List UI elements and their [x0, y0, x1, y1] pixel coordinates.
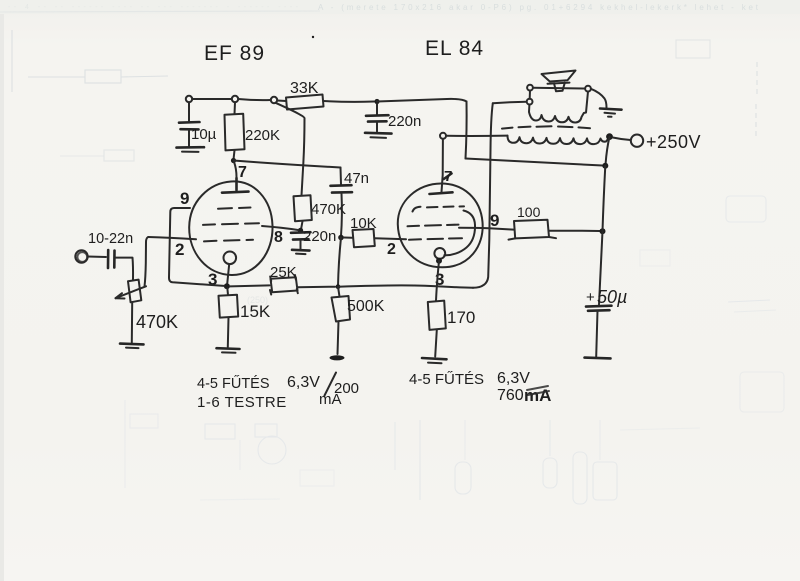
capacitor 10u — [188, 102, 190, 121]
node B (220K top, open circle) — [232, 96, 238, 102]
svg-text:25K: 25K — [270, 264, 297, 281]
wire jack to cap — [88, 256, 106, 259]
svg-text:50µ: 50µ — [597, 287, 627, 307]
svg-text:500K: 500K — [347, 298, 385, 315]
wire speaker bus — [533, 87, 585, 90]
svg-text:7: 7 — [444, 168, 452, 185]
node anode circle — [440, 133, 446, 139]
wire top rail A-B — [192, 98, 232, 100]
svg-text:4-5 FŰTÉS: 4-5 FŰTÉS — [409, 371, 484, 388]
svg-text:760: 760 — [497, 387, 524, 404]
svg-text:470K: 470K — [311, 201, 346, 218]
resistor 470K screen — [294, 195, 312, 221]
resistor 170 — [428, 301, 446, 330]
wire anode to primary — [446, 135, 508, 137]
wire NFB top to secondary — [493, 102, 527, 103]
resistor 33K — [286, 95, 324, 110]
tube EL84 envelope — [398, 184, 483, 268]
svg-text:100: 100 — [517, 204, 541, 220]
wire EL84 anode up — [442, 139, 443, 192]
ground (speaker) — [600, 109, 622, 110]
terminal +250V circle — [631, 135, 643, 147]
svg-text:4-5 FŰTÉS: 4-5 FŰTÉS — [197, 375, 270, 392]
wire cap to pot top — [116, 258, 134, 280]
node NFB junction — [336, 284, 341, 289]
capacitor 220n screen bypass — [291, 231, 311, 234]
ground (pot) — [120, 342, 144, 345]
ground (15K) — [217, 347, 240, 350]
svg-text:9: 9 — [490, 211, 499, 230]
svg-text:6,3V: 6,3V — [287, 374, 320, 391]
svg-text:8: 8 — [274, 229, 283, 246]
ground (220n bypass) — [292, 249, 310, 252]
svg-text:33K: 33K — [290, 80, 319, 97]
wire grid down to pot — [145, 237, 149, 287]
transformer primary winding — [508, 136, 609, 145]
EL84 cathode circle — [434, 248, 445, 259]
wire 33K to node D — [324, 100, 375, 103]
node anode EF89 — [231, 158, 236, 163]
ground (500K blob) — [330, 355, 345, 360]
EL84 dashes row3 — [409, 238, 462, 240]
wire C to 33K — [277, 100, 286, 103]
wire node to terminal — [613, 138, 631, 141]
wire 25K to NFB node — [298, 286, 336, 289]
EF89 cathode circle — [224, 251, 237, 264]
svg-text:7: 7 — [238, 164, 247, 181]
speaker magnet — [548, 83, 570, 84]
wire pin9 loop — [169, 208, 224, 286]
capacitor 50u — [586, 304, 612, 307]
resistor 500K — [338, 287, 340, 297]
node NFB tap circle — [527, 99, 533, 105]
wire rail D to corner — [377, 99, 467, 102]
wire 100 to B+ node — [549, 230, 600, 232]
anode arrow mark — [444, 174, 452, 180]
svg-text:+250V: +250V — [646, 132, 701, 152]
svg-text:10K: 10K — [350, 215, 377, 232]
node screen B+ — [600, 228, 606, 234]
node D (junction dot) — [374, 99, 379, 104]
EF89 grid dashes row2 — [203, 223, 259, 225]
resistor 15K — [226, 289, 229, 296]
input jack — [75, 250, 87, 262]
svg-text:470K: 470K — [136, 312, 178, 332]
svg-text:47n: 47n — [344, 170, 369, 187]
wire pin9 out — [459, 228, 514, 230]
ground (10u) — [177, 146, 205, 149]
pot wiper arrow — [116, 286, 147, 298]
svg-text:220K: 220K — [245, 127, 280, 144]
EF89 anode bar — [235, 178, 238, 190]
svg-text:220n: 220n — [388, 113, 421, 130]
wire NFB line under EL84 — [338, 285, 473, 287]
capacitor 220n rail — [376, 104, 378, 115]
wire grid node down to NFB line — [338, 238, 341, 287]
wire secondary right to ground — [591, 89, 607, 108]
svg-text:9: 9 — [180, 189, 189, 208]
wire anode to pin7 — [234, 161, 237, 178]
node C (33K left, open circle) — [271, 97, 277, 103]
svg-text:10µ: 10µ — [191, 126, 217, 143]
node B+ transformer — [606, 133, 613, 140]
wire between secondary circles — [529, 91, 531, 99]
wire top rail B-C — [238, 99, 271, 100]
wire 47n to grid node — [340, 194, 343, 237]
node EL84 cathode — [436, 258, 442, 264]
transformer secondary winding — [529, 92, 588, 123]
wire NFB corner up — [473, 103, 493, 288]
wire cathode to 170 — [436, 261, 439, 301]
resistor 100 screen EL84 — [514, 220, 549, 239]
node A (10u top, open circle) — [186, 96, 192, 102]
svg-text:170: 170 — [447, 308, 475, 327]
wire cathode node to 25K — [230, 285, 270, 286]
ground (170) — [422, 358, 447, 359]
ink speck — [312, 36, 314, 38]
EF89 grid dashes row3 — [204, 240, 253, 242]
ground (220n rail) — [365, 132, 392, 135]
EL84 anode bar — [430, 192, 453, 194]
node B+ mid — [602, 163, 608, 169]
wire pot to ground — [131, 302, 133, 342]
wire B+ corner down — [466, 102, 467, 159]
svg-text:EL 84: EL 84 — [425, 37, 484, 60]
svg-text:EF 89: EF 89 — [204, 42, 265, 65]
wire grid pin2 — [148, 237, 196, 239]
node secondary top-left — [527, 85, 533, 91]
svg-text:1-6 TESTRE: 1-6 TESTRE — [197, 394, 287, 411]
wire cathode to node — [227, 264, 229, 284]
node screen EF89 — [298, 228, 303, 233]
ground (50u) — [585, 356, 611, 359]
wire pin8 to screen node — [262, 226, 298, 230]
svg-text:mA: mA — [319, 391, 342, 408]
speaker cone — [542, 71, 576, 82]
transformer core dashes — [502, 126, 590, 128]
capacitor 10-22n — [107, 250, 110, 268]
tube EF89 envelope — [189, 181, 272, 275]
svg-text:220n: 220n — [303, 228, 336, 245]
wire B+ vertical — [606, 137, 610, 165]
svg-text:15K: 15K — [240, 302, 271, 321]
EF89 grid dashes row1 — [218, 208, 251, 209]
capacitor 47n — [331, 184, 352, 187]
node EL84 grid — [338, 235, 344, 241]
potentiometer 470K — [128, 280, 141, 303]
EL84 dashes row2 — [408, 225, 459, 227]
EL84 inner shield — [444, 211, 475, 256]
svg-text:6,3V: 6,3V — [497, 370, 530, 387]
EL84 dashes row1 — [413, 206, 465, 211]
node EF89 cathode — [224, 283, 230, 289]
wire anode to 47n — [234, 161, 341, 168]
resistor 10K — [344, 237, 352, 239]
wire C down to 470K screen feed — [276, 103, 305, 196]
resistor 25K — [271, 277, 298, 292]
svg-text:+: + — [586, 289, 595, 306]
resistor 220K — [234, 102, 237, 114]
svg-text:10-22n: 10-22n — [88, 231, 133, 247]
svg-text:2: 2 — [387, 241, 396, 258]
wire B+ y160 to right node — [466, 159, 603, 166]
node secondary top-right — [585, 86, 591, 92]
wire 10K to EL84 pin2 — [375, 237, 406, 240]
svg-text:2: 2 — [175, 240, 184, 259]
